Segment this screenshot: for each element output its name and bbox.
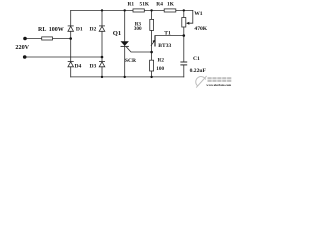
wire W1 wiper	[187, 10, 193, 23]
watermark text	[206, 77, 231, 87]
svg-text:W1: W1	[194, 11, 203, 17]
node bottom rail R2 junction	[150, 76, 152, 78]
capacitor C1	[180, 62, 187, 65]
svg-text:SCR: SCR	[125, 58, 137, 64]
svg-text:Q1: Q1	[113, 30, 121, 37]
wire UJT base2 to C1 node	[155, 35, 184, 37]
resistor R4	[164, 9, 176, 12]
wire AC input top (to RL)	[25, 38, 71, 40]
svg-text:D1: D1	[76, 27, 83, 33]
svg-text:220V: 220V	[15, 44, 29, 51]
svg-text:D4: D4	[75, 63, 82, 69]
svg-text:100W: 100W	[49, 27, 64, 33]
svg-text:R2: R2	[158, 58, 165, 64]
svg-text:D2: D2	[90, 27, 97, 33]
svg-text:R4: R4	[156, 2, 163, 8]
potentiometer W1	[182, 18, 190, 28]
wire AC input bottom	[25, 56, 102, 58]
wire W1-C1 branch lower	[183, 65, 185, 77]
svg-text:RL: RL	[38, 27, 46, 33]
svg-text:0.22uF: 0.22uF	[190, 68, 207, 74]
svg-text:www.elecfans.com: www.elecfans.com	[206, 83, 231, 87]
wire right bridge branch	[101, 10, 103, 77]
node top rail SCR junction	[124, 9, 126, 11]
wire top rail	[71, 9, 193, 11]
resistor R3	[150, 19, 154, 30]
wire R3-R2 branch	[151, 10, 153, 77]
thyristor Q1 SCR	[121, 41, 129, 46]
node 220V terminal bottom	[23, 55, 27, 59]
svg-text:300: 300	[134, 26, 142, 32]
node top rail R3 junction	[150, 9, 152, 11]
diode D3	[99, 61, 105, 66]
wire bottom rail	[71, 76, 184, 78]
svg-text:1K: 1K	[167, 2, 175, 8]
diode D4	[68, 61, 74, 66]
node 220V terminal top	[23, 37, 27, 41]
watermark logo	[196, 76, 207, 88]
svg-text:470K: 470K	[194, 26, 207, 32]
resistor RL (lamp load)	[42, 37, 53, 40]
node C1 UJT junction	[183, 34, 186, 37]
node bridge AC1 junction	[69, 37, 72, 40]
wire W1-C1 branch upper	[183, 10, 185, 62]
resistor R2	[150, 60, 154, 71]
node bottom rail SCR junction	[124, 76, 126, 78]
svg-text:R1: R1	[128, 2, 135, 8]
svg-text:51K: 51K	[140, 2, 150, 8]
diode D1	[68, 26, 74, 31]
node gate junction	[150, 51, 153, 54]
svg-text:100: 100	[156, 66, 164, 72]
node top rail D2 junction	[101, 9, 103, 11]
svg-text:D3: D3	[90, 63, 97, 69]
wire left bridge branch	[70, 10, 72, 77]
svg-text:T1: T1	[164, 30, 171, 36]
svg-text:C1: C1	[193, 56, 200, 62]
wire SCR gate	[127, 47, 152, 52]
node bridge AC2 junction	[101, 56, 104, 59]
node top rail W1 junction	[183, 9, 185, 11]
node bottom rail D3 junction	[101, 76, 103, 78]
transistor T1 UJT BT33	[151, 36, 155, 47]
diode D2	[99, 26, 105, 31]
svg-text:BT33: BT33	[158, 43, 171, 49]
resistor R1	[133, 9, 144, 12]
wire SCR branch	[124, 10, 126, 77]
